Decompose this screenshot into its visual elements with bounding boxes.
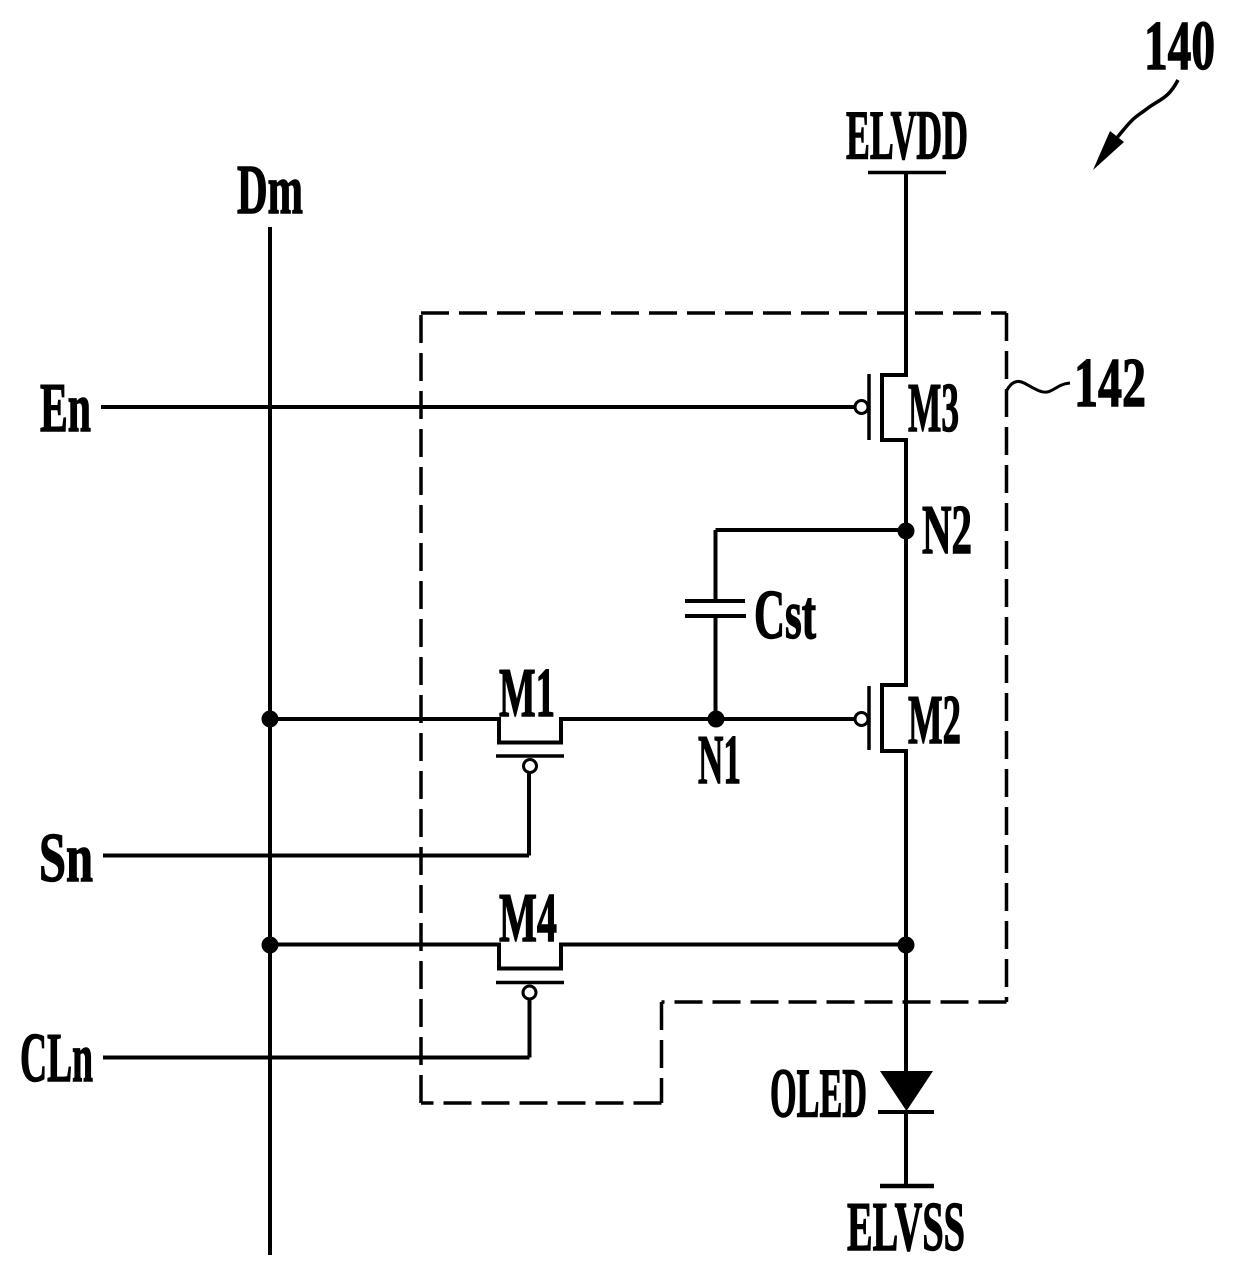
svg-text:ELVDD: ELVDD	[846, 98, 968, 175]
svg-text:M1: M1	[499, 655, 555, 732]
svg-text:M2: M2	[908, 682, 961, 759]
svg-text:Sn: Sn	[39, 820, 93, 897]
svg-text:CLn: CLn	[20, 1020, 93, 1097]
svg-text:N1: N1	[698, 722, 741, 799]
svg-text:OLED: OLED	[770, 1056, 867, 1133]
svg-text:N2: N2	[922, 492, 972, 569]
svg-text:ELVSS: ELVSS	[847, 1189, 965, 1266]
svg-text:M4: M4	[499, 880, 557, 957]
svg-text:140: 140	[1144, 8, 1215, 85]
svg-text:142: 142	[1074, 345, 1146, 422]
svg-text:Dm: Dm	[237, 152, 303, 229]
svg-text:Cst: Cst	[754, 577, 816, 654]
svg-text:En: En	[40, 370, 91, 447]
svg-text:M3: M3	[908, 370, 959, 447]
